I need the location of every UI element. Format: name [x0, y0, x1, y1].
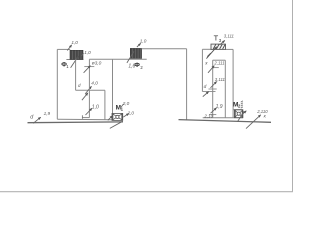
- fan M1 symbol: [112, 113, 123, 120]
- wire F1 drop pipe: [75, 59, 77, 90]
- node long arrow to 2,110: [246, 115, 261, 129]
- svg-text:1: 1: [121, 107, 124, 112]
- wire building2 left wall: [201, 49, 203, 91]
- node big arrow to T3: [206, 47, 216, 59]
- wire drop to street right: [186, 49, 188, 120]
- node arrow fan1 bottom-left: [108, 116, 113, 121]
- svg-text:1,9: 1,9: [216, 104, 223, 110]
- node slash-arrow bar B: [203, 92, 209, 97]
- svg-text:2,110: 2,110: [256, 109, 268, 114]
- node section arrow r1: [208, 66, 214, 73]
- wire riser V5 to fan M1: [112, 59, 114, 113]
- wire F2 output line: [142, 48, 187, 50]
- wire street-main-left: [28, 121, 124, 124]
- svg-text:κ: κ: [264, 114, 267, 119]
- node slash through F2: [127, 51, 134, 63]
- svg-text:2,111: 2,111: [213, 61, 225, 66]
- wire riser V3: [88, 59, 90, 117]
- svg-text:2,0: 2,0: [127, 110, 135, 115]
- node section arrow on V3 lower: [86, 108, 92, 115]
- svg-text:d: d: [78, 83, 81, 88]
- svg-text:1,0: 1,0: [84, 50, 91, 55]
- wire riser V4: [104, 90, 106, 119]
- node arrow fan2 right: [241, 111, 246, 115]
- node small slash right of F1: [82, 53, 84, 56]
- svg-text:d: d: [204, 84, 207, 90]
- svg-text:2: 2: [140, 65, 143, 70]
- svg-text:1,0: 1,0: [71, 40, 78, 45]
- heater T3 hatched box: [211, 44, 226, 49]
- wire stub C right of riser: [213, 67, 219, 69]
- node section arrow on H1: [85, 86, 91, 94]
- svg-text:1: 1: [66, 64, 69, 69]
- node long slash under fan1: [110, 121, 123, 128]
- wire street-main-right: [179, 120, 272, 123]
- wire building2 floor: [203, 117, 243, 119]
- node small slash on T3 arrow: [207, 53, 211, 57]
- node slash through fan2: [238, 111, 245, 121]
- node slash below F1: [71, 56, 79, 67]
- wire building1 floor: [57, 118, 112, 121]
- svg-text:Ф: Ф: [134, 62, 140, 69]
- heater F1 hatched box: [70, 50, 83, 59]
- wire inner U top: [213, 59, 226, 61]
- svg-text:1,0: 1,0: [92, 105, 99, 111]
- node ledge under F1: [66, 59, 83, 61]
- svg-text:x: x: [204, 60, 208, 65]
- node arrow to 1,0 above F2: [137, 43, 141, 47]
- wire riser B2-right: [224, 60, 226, 117]
- wire building1 left wall: [56, 49, 58, 119]
- node slash below H1: [82, 93, 88, 100]
- fan M2 symbol: [234, 110, 243, 118]
- wire H1 horizontal pipe: [76, 89, 105, 91]
- svg-text:3,111: 3,111: [215, 77, 226, 82]
- node section-0 arrow: [33, 117, 40, 123]
- wire fan2 stub top: [233, 109, 243, 111]
- svg-text:2,0: 2,0: [122, 101, 130, 106]
- svg-text:2,10: 2,10: [203, 113, 213, 118]
- svg-text:ø3,0: ø3,0: [92, 61, 102, 67]
- border right: [292, 0, 294, 192]
- svg-text:3: 3: [219, 38, 222, 43]
- node stub tick: [81, 115, 83, 119]
- svg-text:1,0: 1,0: [140, 39, 147, 44]
- node riser bottom bar: [209, 114, 216, 116]
- wire building2 right wall: [232, 49, 234, 117]
- node slash near M1: [121, 104, 123, 107]
- wire riser B2-left: [212, 60, 214, 117]
- node bar on V3: [84, 66, 94, 68]
- wire feed line to F2: [89, 58, 146, 60]
- node slashes right of M2: [241, 101, 243, 102]
- svg-text:4,0: 4,0: [91, 81, 98, 86]
- node arrow to 3,111 top: [220, 41, 225, 45]
- node section arrow r3: [211, 108, 217, 113]
- svg-text:3,111: 3,111: [224, 33, 235, 38]
- wire building2 roof right: [225, 48, 233, 50]
- svg-text:d: d: [30, 115, 34, 121]
- svg-text:1,9: 1,9: [44, 111, 51, 116]
- node arrow fan1 top-right: [123, 114, 129, 118]
- node section arrow on V3: [84, 66, 91, 73]
- wire building1 roof: [57, 48, 70, 50]
- wire bar A: [209, 88, 217, 90]
- wire bar B: [202, 91, 215, 93]
- border bottom: [0, 191, 293, 193]
- heater F2 hatched box: [130, 48, 141, 58]
- node section arrow r2: [211, 82, 217, 88]
- svg-text:2: 2: [238, 104, 241, 109]
- node arrow to 1,0 above F1: [67, 45, 71, 51]
- wire building2 roof left: [202, 48, 211, 50]
- wire stub appliance: [82, 117, 89, 119]
